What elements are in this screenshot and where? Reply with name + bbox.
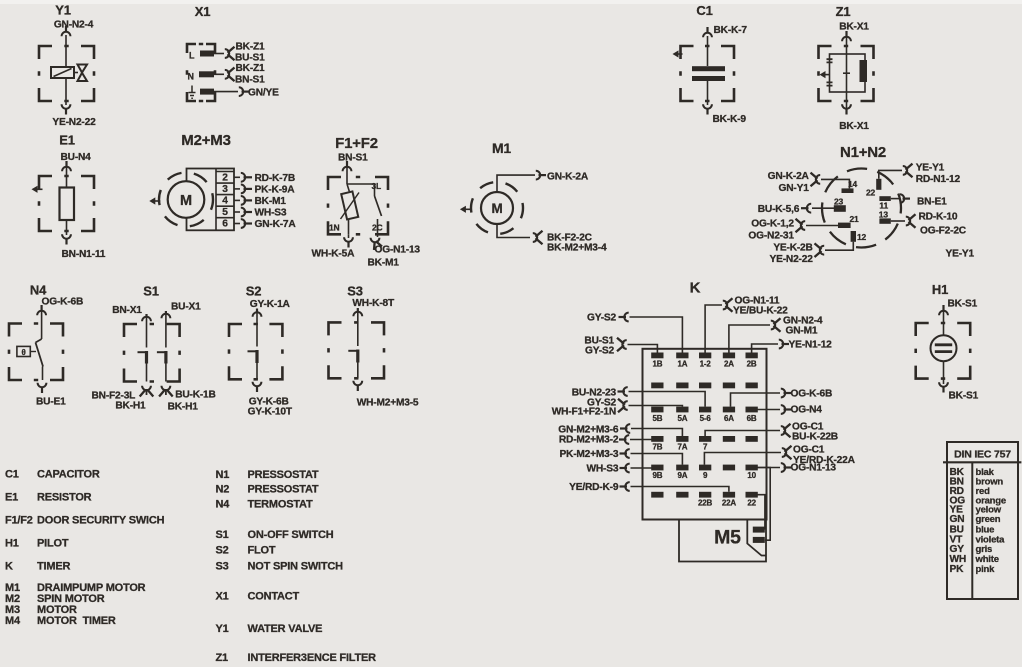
wire N4 bottom lead — [42, 367, 44, 381]
svg-text:3L: 3L — [372, 181, 382, 191]
svg-text:BN-S1: BN-S1 — [235, 75, 265, 86]
wire Y1 bottom lead — [65, 78, 67, 105]
connector Z1 bottom — [842, 104, 851, 108]
svg-text:N: N — [188, 72, 194, 82]
shield box C1 — [681, 46, 735, 101]
svg-text:BU-E1: BU-E1 — [36, 397, 66, 408]
svg-text:L: L — [189, 51, 195, 61]
wire OG-N4 to 6B — [757, 409, 780, 411]
svg-text:M2+M3: M2+M3 — [181, 132, 230, 149]
S2 contact — [248, 350, 258, 352]
H1 wire bottom — [943, 361, 945, 384]
svg-text:K: K — [5, 561, 13, 573]
connector BN-E1 — [900, 194, 904, 203]
K row3 terminal bars 5B 5A 5-6 6A 6B — [651, 407, 663, 413]
shield box E1 — [39, 176, 94, 231]
fork OG to pin 21 — [801, 221, 805, 230]
svg-text:NOT SPIN SWITCH: NOT SPIN SWITCH — [248, 561, 344, 573]
svg-text:10: 10 — [747, 471, 756, 480]
connector Y1 top — [62, 32, 71, 36]
svg-text:N1: N1 — [216, 469, 230, 481]
fork YE-Y1 RD-N1-12 — [903, 166, 907, 175]
wire OG-K-6B to 6A — [731, 393, 781, 407]
wire terminal 10 to M5 — [757, 468, 770, 541]
wire to 1-2 — [705, 305, 722, 353]
connector OG-K-6B — [781, 389, 785, 398]
svg-text:7B: 7B — [652, 442, 662, 451]
solenoid coil Y1 — [51, 67, 74, 78]
svg-text:22: 22 — [866, 188, 876, 198]
svg-text:M: M — [491, 201, 502, 216]
svg-text:22B: 22B — [698, 499, 712, 508]
svg-text:GY-S2: GY-S2 — [587, 313, 617, 324]
fork BU-S1 GY-S2 to 1B — [622, 340, 626, 349]
svg-text:1B: 1B — [652, 360, 662, 369]
S2 wire — [256, 309, 258, 347]
S1 pole 1 wire — [146, 314, 148, 348]
svg-text:PK: PK — [950, 564, 965, 575]
svg-text:2C: 2C — [372, 223, 383, 233]
wire to 2A — [729, 325, 770, 353]
svg-text:YE-N2-22: YE-N2-22 — [52, 117, 96, 128]
svg-text:6B: 6B — [747, 414, 757, 423]
wire to 2B — [752, 344, 778, 353]
svg-text:CAPACITOR: CAPACITOR — [37, 469, 100, 481]
svg-text:GN-M1: GN-M1 — [786, 326, 818, 337]
svg-text:WH-K-5A: WH-K-5A — [312, 249, 356, 260]
svg-text:BU-N4: BU-N4 — [61, 152, 92, 163]
pilot lamp circle — [931, 335, 957, 361]
fork OG-N1-11 to 1-2 — [723, 301, 727, 310]
svg-text:GN-N2-4: GN-N2-4 — [54, 20, 94, 31]
svg-text:S3: S3 — [347, 284, 363, 299]
wire PTC leads — [347, 184, 350, 234]
connector WH-K-5A — [344, 237, 353, 241]
capacitor plates C1 — [692, 66, 725, 71]
svg-text:BK-Z1: BK-Z1 — [236, 42, 266, 53]
terminal strip M2+M3 — [187, 169, 235, 231]
chassis mark C1 — [673, 50, 679, 57]
svg-text:YE-N2-22: YE-N2-22 — [770, 254, 814, 265]
connector GY-S2 — [624, 313, 628, 322]
svg-text:S1: S1 — [216, 529, 229, 541]
thermostat sensor box — [17, 346, 30, 356]
connector Z1 top — [842, 37, 851, 41]
svg-text:6: 6 — [222, 219, 228, 230]
DIN column divider — [971, 462, 973, 599]
svg-text:M1: M1 — [492, 140, 511, 156]
shield box S3 — [329, 322, 385, 378]
svg-text:PK-M2+M3-3: PK-M2+M3-3 — [559, 449, 618, 460]
connector H1 top — [939, 311, 948, 315]
wire pin 11 — [891, 198, 899, 200]
connector Y1 bottom — [62, 104, 71, 108]
wire to pin 22 — [879, 170, 902, 178]
pin 21 bar — [838, 223, 851, 228]
svg-text:YE-Y1: YE-Y1 — [916, 163, 945, 174]
connector E1 top — [62, 167, 71, 171]
svg-text:C1: C1 — [696, 3, 712, 18]
svg-text:WH-M2+M3-5: WH-M2+M3-5 — [357, 398, 419, 409]
connector N4 bottom — [38, 383, 47, 387]
wire C1 bottom lead — [707, 81, 709, 105]
svg-text:Z1: Z1 — [216, 652, 229, 664]
svg-text:N2: N2 — [216, 484, 230, 496]
svg-text:12: 12 — [857, 232, 867, 242]
shield box Y1 — [39, 46, 94, 101]
connector YE/RD-K-9 — [625, 482, 629, 491]
wire Z1 center — [846, 31, 848, 101]
shield box H1 — [916, 323, 971, 379]
svg-text:E1: E1 — [59, 133, 75, 148]
connector PK-M2+M3-3 — [625, 449, 629, 458]
svg-text:BK-S1: BK-S1 — [949, 391, 979, 402]
svg-text:GN-Y1: GN-Y1 — [779, 183, 810, 194]
fork to 5A — [623, 401, 627, 410]
svg-text:WH-S3: WH-S3 — [586, 464, 618, 475]
filter capacitor upper — [827, 59, 833, 62]
svg-text:TIMER: TIMER — [37, 561, 70, 573]
svg-text:GN-K-2A: GN-K-2A — [768, 171, 810, 182]
svg-text:YE/RD-K-9: YE/RD-K-9 — [569, 482, 619, 493]
shield box N4 — [9, 324, 63, 381]
svg-text:9A: 9A — [677, 471, 687, 480]
filter resistor Z1 — [860, 60, 868, 82]
wire C1 top lead — [707, 36, 709, 66]
svg-text:3: 3 — [222, 184, 228, 195]
shield box F1+F2 — [328, 177, 388, 234]
svg-text:7A: 7A — [677, 442, 687, 451]
svg-text:N1+N2: N1+N2 — [840, 144, 886, 161]
svg-text:YE-K-2B: YE-K-2B — [773, 243, 812, 254]
connector GN-K-2A — [536, 171, 540, 180]
fork connector L — [225, 49, 229, 58]
svg-text:1A: 1A — [677, 360, 687, 369]
S3 wire — [357, 309, 359, 347]
M5 terminal lower — [753, 537, 765, 543]
connector WH-S3 — [241, 208, 245, 217]
earth terminal of X1 — [189, 86, 196, 99]
svg-text:GY-S2: GY-S2 — [585, 346, 615, 357]
connector S1 left top — [142, 317, 151, 321]
H1 wire top — [943, 307, 945, 335]
svg-text:BN-X1: BN-X1 — [112, 305, 142, 316]
wire E1 bottom lead — [66, 220, 68, 235]
fork S1 right bottom — [162, 386, 171, 390]
svg-text:INTERFER3ENCE FILTER: INTERFER3ENCE FILTER — [248, 652, 377, 664]
svg-text:DIN IEC 757: DIN IEC 757 — [954, 449, 1011, 461]
wire L to fork — [214, 53, 224, 55]
svg-text:WATER VALVE: WATER VALVE — [248, 623, 323, 635]
DIN IEC 757 colour code box — [947, 442, 1018, 599]
connector RD-K-7B — [241, 173, 245, 182]
wire to terminal 9 — [704, 453, 781, 465]
shield box S2 — [229, 324, 282, 379]
svg-text:22A: 22A — [722, 499, 736, 508]
svg-text:GY-K-1A: GY-K-1A — [250, 299, 291, 310]
S1 pole 1 contact — [138, 351, 147, 353]
connector N4 top — [37, 311, 46, 315]
connector C1 top — [703, 33, 712, 37]
svg-text:5B: 5B — [652, 414, 662, 423]
svg-text:9B: 9B — [652, 471, 662, 480]
svg-text:E1: E1 — [5, 492, 18, 504]
svg-text:RD-K-7B: RD-K-7B — [255, 173, 295, 184]
svg-text:22: 22 — [747, 499, 756, 508]
svg-text:WH-F1+F2-1N: WH-F1+F2-1N — [552, 406, 616, 417]
svg-text:BU-S1: BU-S1 — [235, 53, 265, 64]
svg-text:S2: S2 — [246, 284, 262, 299]
svg-text:YE-N1-12: YE-N1-12 — [789, 340, 833, 351]
svg-text:F1/F2: F1/F2 — [5, 515, 33, 527]
dashed circle N1+N2 — [822, 169, 901, 248]
wire to 9B — [631, 467, 652, 469]
timer K box — [643, 349, 767, 520]
svg-text:BU-X1: BU-X1 — [171, 302, 201, 313]
wire to 7B — [630, 439, 652, 441]
svg-text:N4: N4 — [30, 283, 47, 298]
svg-text:14: 14 — [848, 179, 858, 189]
wire earth to connector — [214, 91, 238, 93]
connector WH-S3 — [625, 464, 629, 473]
connector S3 bottom — [353, 381, 362, 385]
connector YE-N1-12 — [779, 340, 783, 349]
filter capacitor lower — [827, 82, 833, 85]
svg-text:4: 4 — [222, 196, 228, 207]
svg-text:BK-S1: BK-S1 — [948, 299, 978, 310]
svg-text:OG-K-1,2: OG-K-1,2 — [751, 219, 794, 230]
wire pin to WH-S3 — [234, 211, 240, 213]
fork connector N — [225, 70, 229, 79]
svg-text:FLOT: FLOT — [248, 545, 276, 557]
PTC resistor F1 — [341, 191, 358, 219]
chassis mark E1 — [32, 186, 38, 193]
pin 12 bar — [851, 231, 856, 242]
connector GN-K-7A — [241, 219, 245, 228]
svg-text:θ: θ — [21, 348, 25, 357]
pin 23 bar — [834, 205, 846, 212]
filter inner box Z1 — [830, 54, 866, 92]
connector OG-N1-13 — [781, 463, 785, 472]
connector GN-M2+M3-6 — [626, 424, 630, 433]
svg-text:BU-K-5,6: BU-K-5,6 — [758, 204, 800, 215]
svg-text:1-2: 1-2 — [700, 360, 712, 369]
svg-text:13: 13 — [879, 209, 889, 219]
svg-text:BK-M1: BK-M1 — [368, 258, 400, 269]
K row6 terminal bars 22B 22A 22 — [651, 492, 663, 498]
valve symbol Y1 — [78, 65, 88, 82]
svg-text:X1: X1 — [216, 591, 229, 603]
svg-text:S3: S3 — [216, 561, 229, 573]
svg-text:GN/YE: GN/YE — [248, 88, 279, 99]
center tick Z1 — [843, 72, 850, 74]
connector BU-K-5,6 — [807, 204, 811, 213]
motor circle M2+M3 — [168, 181, 205, 218]
svg-text:PILOT: PILOT — [37, 538, 69, 550]
svg-text:BN-S1: BN-S1 — [338, 153, 368, 164]
svg-text:OG-F2-2C: OG-F2-2C — [920, 226, 967, 237]
switch blade N4 — [36, 339, 42, 343]
wire top lead F1+F2 — [347, 162, 375, 184]
svg-text:BK-X1: BK-X1 — [839, 121, 869, 132]
connector E1 bottom — [62, 234, 71, 238]
svg-text:WH-K-8T: WH-K-8T — [352, 298, 395, 309]
svg-text:9: 9 — [703, 471, 708, 480]
svg-text:BK-H1: BK-H1 — [168, 402, 199, 413]
wire to 1B — [628, 345, 658, 353]
svg-text:OG-C1: OG-C1 — [793, 445, 825, 456]
svg-text:RESISTOR: RESISTOR — [37, 492, 92, 504]
fork connector F2 out — [371, 238, 380, 242]
shield box X1 — [187, 44, 215, 101]
svg-text:M5: M5 — [714, 527, 741, 549]
svg-text:Y1: Y1 — [216, 623, 229, 635]
wire pin 13 — [891, 220, 905, 222]
svg-text:S1: S1 — [143, 284, 159, 299]
fork connector M1 bottom — [533, 233, 537, 242]
fork S1 left bottom — [142, 386, 151, 390]
svg-text:OG-K-6B: OG-K-6B — [791, 389, 833, 400]
motor circle M1 — [481, 192, 513, 224]
svg-text:OG-N2-31: OG-N2-31 — [748, 231, 794, 242]
svg-text:OG-N4: OG-N4 — [791, 405, 823, 416]
wire to WH-K-5A — [348, 234, 350, 238]
svg-text:BK-X1: BK-X1 — [839, 22, 869, 33]
svg-text:5: 5 — [222, 207, 228, 218]
fork YE to pin 12 — [820, 246, 824, 255]
dashed stator circle M2+M3 — [159, 173, 213, 227]
wire to 9A — [631, 454, 683, 465]
svg-text:Y1: Y1 — [55, 3, 71, 18]
wire to pin 23 — [812, 207, 834, 209]
svg-text:pink: pink — [976, 564, 996, 575]
wire OG-N1-13 to 10 — [757, 467, 780, 469]
svg-text:H1: H1 — [5, 538, 19, 550]
svg-text:BK-H1: BK-H1 — [115, 401, 146, 412]
svg-text:PK-K-9A: PK-K-9A — [255, 184, 296, 195]
wire pin to GN-K-7A — [234, 223, 240, 225]
svg-text:5A: 5A — [677, 414, 687, 423]
svg-text:BK-K-7: BK-K-7 — [714, 25, 748, 36]
S3 contact — [348, 350, 358, 352]
chassis mark M2+M3 — [149, 197, 155, 204]
wire N to fork — [214, 73, 224, 75]
fork RD-K-10 OG-F2-2C — [906, 217, 910, 226]
wire pin to PK-K-9A — [234, 188, 240, 190]
svg-text:BU-K-1B: BU-K-1B — [175, 390, 215, 401]
svg-text:2: 2 — [222, 173, 228, 184]
connector S1 right top — [162, 314, 171, 318]
S1 pole 2 wire — [165, 311, 167, 348]
wire coil to valve — [74, 72, 78, 74]
connector GN/YE — [239, 87, 243, 96]
svg-text:Z1: Z1 — [836, 4, 851, 19]
shield box Z1 — [819, 46, 874, 101]
svg-text:BN-N1-11: BN-N1-11 — [62, 249, 106, 260]
svg-text:OG-N1-13: OG-N1-13 — [375, 245, 421, 256]
K row2 terminal bars — [651, 383, 663, 389]
S1 pole 2 contact — [157, 351, 166, 353]
connector BK-M1 — [241, 196, 245, 205]
svg-text:23: 23 — [834, 196, 844, 206]
svg-text:S2: S2 — [216, 545, 229, 557]
svg-text:21: 21 — [850, 214, 860, 224]
svg-text:6A: 6A — [724, 414, 734, 423]
wire to 7A — [631, 429, 682, 437]
svg-text:N4: N4 — [216, 499, 231, 511]
shield box S1 — [124, 324, 180, 382]
chassis mark M1 — [460, 206, 466, 213]
pin 14 bar — [842, 188, 854, 193]
connector F1+F2 top — [343, 167, 352, 171]
M5 notch line — [747, 520, 766, 556]
svg-text:BN-E1: BN-E1 — [917, 197, 947, 208]
svg-text:WH-S3: WH-S3 — [255, 208, 287, 219]
connector H1 bottom — [939, 382, 948, 386]
dashed stator circle M1 — [471, 182, 523, 234]
pin 22 bar — [876, 179, 881, 190]
svg-text:GY-K-10T: GY-K-10T — [248, 407, 293, 418]
motor timer M5 box — [679, 520, 766, 562]
fork OG-C1 YE/RD to 9 — [782, 448, 786, 457]
M5 terminal upper — [753, 527, 765, 533]
svg-text:RD-M2+M3-2: RD-M2+M3-2 — [559, 435, 619, 446]
lamp bars — [935, 345, 952, 352]
svg-text:M: M — [180, 193, 192, 209]
wire terminal 22 to M5 — [757, 495, 765, 530]
wire to 22A — [631, 487, 729, 492]
connector OG-N4 — [781, 405, 785, 414]
fork OG-C1 BU-K-22B to 7 — [781, 426, 785, 435]
svg-text:BK-M2+M3-4: BK-M2+M3-4 — [547, 243, 607, 254]
K row4 terminal bars 7B 7A 7 — [651, 436, 663, 442]
svg-text:M4: M4 — [5, 615, 21, 627]
svg-text:MOTOR TIMER: MOTOR TIMER — [37, 615, 116, 627]
svg-text:PRESSOSTAT: PRESSOSTAT — [248, 484, 319, 496]
wire E1 top lead — [66, 162, 68, 188]
fork GN-N2-4 to 2A — [771, 321, 775, 330]
svg-text:OG-K-6B: OG-K-6B — [42, 297, 84, 308]
wire BU-N2-23 to 5-6 — [629, 392, 706, 407]
wire to 5A — [629, 406, 683, 407]
wire Y1 top lead — [65, 35, 67, 67]
wire to pin 14 — [821, 179, 849, 188]
svg-text:5-6: 5-6 — [700, 414, 712, 423]
chassis mark Z1 — [820, 71, 826, 78]
connector RD-M2+M3-2 — [625, 435, 629, 444]
svg-text:BK-K-9: BK-K-9 — [713, 114, 747, 125]
svg-text:X1: X1 — [195, 4, 211, 19]
svg-text:K: K — [690, 280, 701, 297]
K row1 terminal bars 1B 1A 1-2 2A 2B — [651, 353, 663, 359]
wire pin 12 — [825, 242, 853, 250]
svg-text:DOOR SECURITY SWICH: DOOR SECURITY SWICH — [37, 515, 165, 527]
connector S2 bottom — [253, 382, 262, 386]
resistor body E1 — [60, 188, 75, 221]
K row5 terminal bars 9B 9A 9 10 — [651, 465, 663, 471]
svg-text:TERMOSTAT: TERMOSTAT — [248, 499, 313, 511]
connector BU-N2-23 — [623, 387, 627, 396]
svg-text:2B: 2B — [747, 360, 757, 369]
svg-text:C1: C1 — [5, 469, 19, 481]
connector C1 bottom — [703, 104, 712, 108]
svg-text:7: 7 — [703, 442, 708, 451]
svg-text:H1: H1 — [932, 282, 948, 297]
svg-text:GN-K-2A: GN-K-2A — [547, 172, 589, 183]
svg-text:2A: 2A — [724, 360, 734, 369]
svg-text:YE-Y1: YE-Y1 — [946, 249, 975, 260]
svg-text:1N: 1N — [329, 223, 340, 233]
